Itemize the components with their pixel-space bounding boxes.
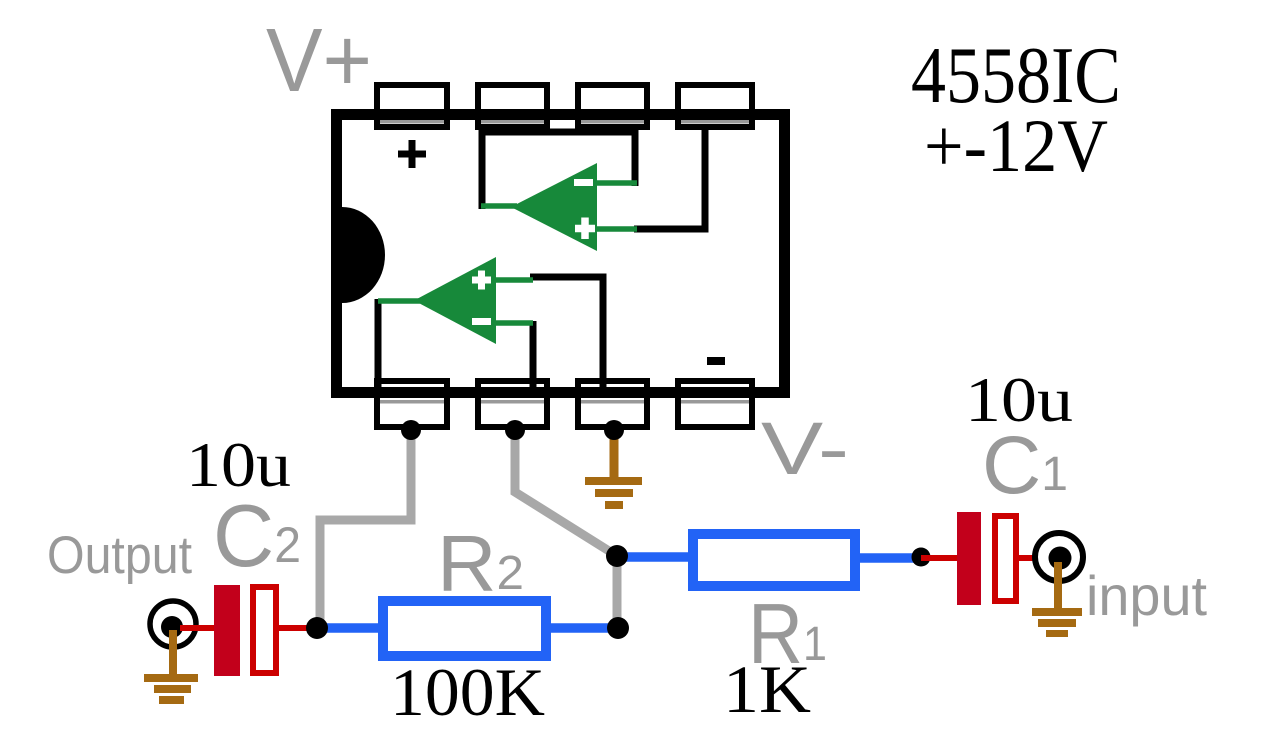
svg-text:V+: V+ <box>266 11 372 111</box>
IC U1 bottom pin 3 <box>578 381 647 427</box>
op-amp B non-inverting input lead <box>493 277 533 283</box>
junction: pin 2 node <box>505 420 525 440</box>
IC U1 bottom pin 4 <box>678 381 752 427</box>
junction: R2 node <box>607 617 629 639</box>
svg-text:input: input <box>1086 564 1207 627</box>
IC U1 top pin 7 <box>478 85 547 127</box>
op-amp A non-inverting mark <box>575 218 595 240</box>
gray line in bottom pin 2 <box>481 400 544 404</box>
gray line in top pin 5 <box>681 120 749 124</box>
gray line in bottom pin 1 <box>380 400 444 404</box>
op-amp B non-inverting mark <box>472 271 491 290</box>
wire: op-amp B non-inverting input to pin 3 <box>530 277 603 388</box>
op-amp B output lead <box>378 298 420 304</box>
junction: pin 1 node <box>401 420 421 440</box>
IC U1 body outline <box>337 115 785 393</box>
wire: feedback node to R2 node (gray) <box>613 556 622 628</box>
op-amp A (upper) triangle <box>511 163 597 251</box>
junction: C1 node <box>912 548 931 567</box>
IC U1 top pin 8 <box>377 85 447 127</box>
gray line in top pin 7 <box>481 120 544 124</box>
gray line in bottom pin 4 <box>681 400 749 404</box>
wire: pin 2 to feedback node (gray) <box>515 430 617 556</box>
ground at output jack <box>144 630 198 704</box>
junction: feedback node <box>606 545 628 567</box>
op-amp A non-inverting input lead <box>595 226 637 232</box>
resistor R2 <box>383 601 546 656</box>
capacitor C2 <box>214 585 276 676</box>
op-amp A output lead <box>481 203 517 209</box>
IC U1 bottom pin 1 <box>377 381 447 427</box>
wire: C2 to output node (red) <box>279 625 317 631</box>
wire: output jack to C2 (red) <box>180 625 216 631</box>
wire: feedback node to R1 (blue) <box>617 552 693 562</box>
op-amp A inverting mark <box>574 179 593 186</box>
svg-text:100K: 100K <box>390 654 545 730</box>
wire: R1 to C1 node (blue) <box>860 553 921 563</box>
svg-text:V-: V- <box>761 407 849 490</box>
svg-text:Output: Output <box>47 526 192 585</box>
svg-text:1K: 1K <box>723 651 811 727</box>
V- polarity mark inside IC <box>707 357 725 365</box>
wire: C1 node to C1 (red) <box>921 555 959 561</box>
gray line in top pin 8 <box>380 120 444 124</box>
capacitor C1 <box>957 512 1016 605</box>
op-amp B inverting input lead <box>493 320 533 326</box>
op-amp B inverting mark <box>472 318 491 325</box>
wire: pin 1 to output node (gray) <box>320 430 411 628</box>
ground at pin 3 <box>585 430 642 509</box>
op-amp A inverting input lead <box>593 180 637 186</box>
resistor R1 <box>693 534 855 586</box>
wire: output node to R2 (blue) <box>317 623 381 633</box>
junction: pin 3 node <box>604 420 624 440</box>
gray line in top pin 6 <box>581 120 644 124</box>
IC U1 top pin 5 <box>678 85 752 127</box>
wire: R2 to R2 node (blue) <box>551 623 618 633</box>
wire: op-amp A non-inverting input to pin 5 <box>634 129 705 229</box>
wire: C1 to input jack (red) <box>1019 555 1055 561</box>
wire: op-amp B inverting input to pin 2 <box>530 321 537 388</box>
ground at input jack <box>1032 562 1082 637</box>
op-amp B (lower) triangle <box>414 257 496 344</box>
IC U1 bottom pin 2 <box>478 381 547 427</box>
input jack J2 <box>1035 533 1083 581</box>
junction: output node <box>306 617 328 639</box>
IC U1 pin1 notch <box>342 207 385 303</box>
V+ polarity mark inside IC <box>398 140 426 168</box>
output jack J1 <box>150 601 196 647</box>
IC U1 top pin 6 <box>578 85 647 127</box>
gray line in bottom pin 3 <box>581 400 644 404</box>
wire: op-amp B output to pin 1 <box>375 299 382 388</box>
wire: feedback op-amp A output to inverting input <box>482 132 635 209</box>
svg-text:+-12V: +-12V <box>924 105 1108 188</box>
